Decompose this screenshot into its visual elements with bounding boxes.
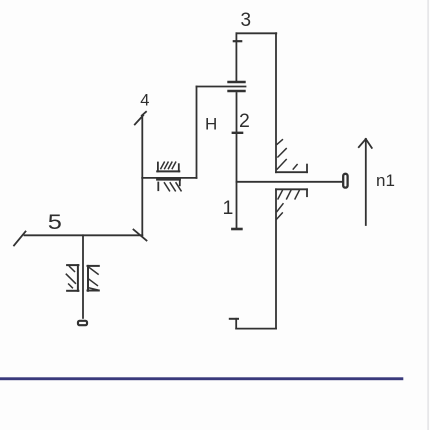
svg-text:2: 2 [239, 110, 250, 132]
svg-text:n1: n1 [376, 171, 395, 190]
svg-text:1: 1 [223, 197, 234, 219]
svg-text:4: 4 [140, 92, 149, 110]
svg-text:H: H [205, 115, 217, 134]
svg-text:3: 3 [241, 10, 252, 31]
svg-text:5: 5 [48, 210, 62, 234]
